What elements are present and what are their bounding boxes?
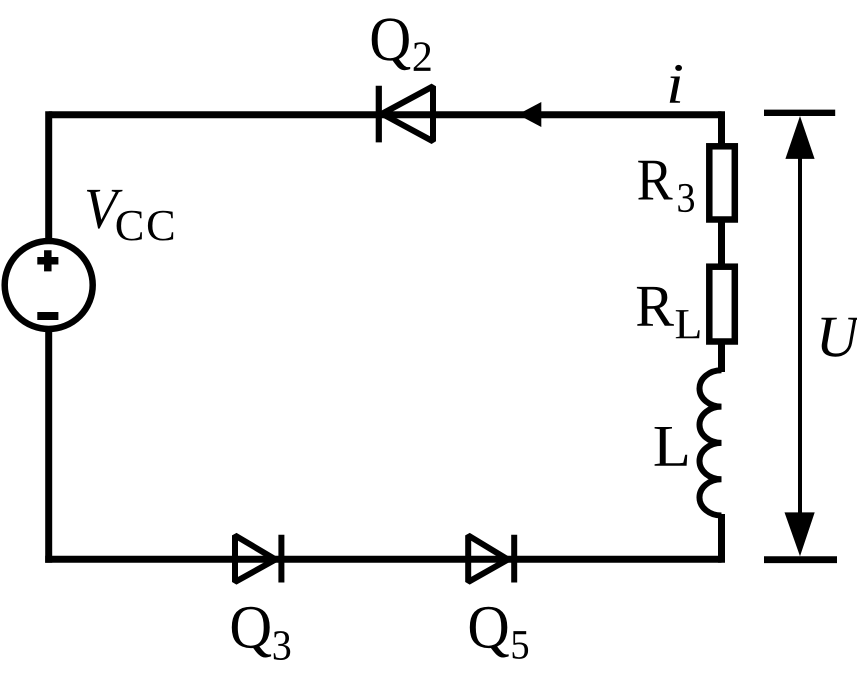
U dimension down arrowhead	[785, 512, 815, 556]
current arrow on top wire	[518, 102, 542, 127]
label VCC C1	[117, 211, 142, 241]
diode Q5 triangle	[468, 535, 508, 582]
diode Q5 cathode bar	[511, 535, 517, 583]
wire left vertical lower	[45, 329, 52, 563]
label R3 R	[638, 161, 672, 200]
inductor L coil	[699, 370, 721, 515]
label Q2 sub2	[414, 42, 431, 71]
label VCC V	[87, 190, 123, 229]
diode Q3 triangle	[235, 535, 276, 582]
voltage source VCC circle	[5, 241, 93, 329]
wire left vertical upper	[45, 111, 52, 241]
label VCC C2	[148, 211, 173, 241]
label R3 sub3	[678, 184, 694, 212]
U dimension up arrowhead	[785, 116, 814, 159]
diode Q3 cathode bar	[278, 535, 284, 583]
U dimension top bar	[764, 110, 835, 116]
label i	[670, 65, 682, 103]
label RL subL	[676, 310, 700, 338]
label Q2 Q	[372, 18, 411, 70]
wire bottom horizontal	[45, 556, 721, 563]
label L	[655, 427, 688, 466]
label Q5 Q	[470, 607, 509, 658]
diode Q2 cathode bar	[376, 86, 382, 143]
wire top horizontal	[49, 111, 722, 118]
wire right vertical segments	[718, 111, 725, 146]
label RL R	[637, 287, 674, 326]
label Q5 sub5	[513, 631, 529, 659]
VCC plus sign	[37, 250, 58, 271]
label U	[821, 318, 857, 357]
U dimension bottom bar	[764, 556, 837, 563]
resistor R3	[709, 146, 735, 219]
diode Q2 triangle	[382, 86, 433, 141]
U dimension vertical line	[798, 130, 802, 540]
label Q3 sub3	[274, 631, 291, 660]
VCC minus sign	[37, 312, 58, 320]
label Q3 Q	[232, 607, 271, 658]
resistor RL	[709, 267, 735, 342]
